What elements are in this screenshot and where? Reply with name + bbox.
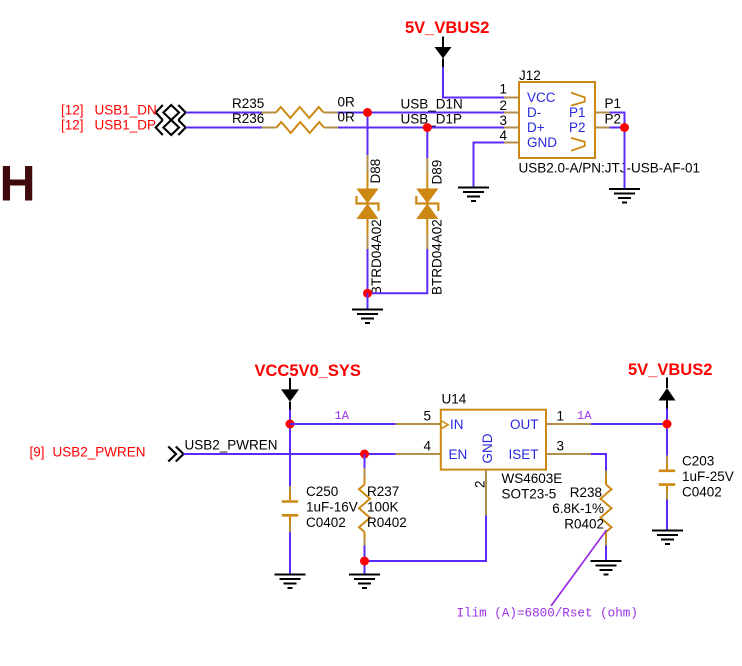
svg-text:VCC: VCC xyxy=(527,90,556,105)
off-page connector USB1_DN xyxy=(156,105,186,120)
svg-text:D-: D- xyxy=(527,105,541,120)
wire OUT (pin1) xyxy=(546,423,591,425)
shell crimp symbol bottom xyxy=(571,138,585,151)
junction P2 xyxy=(620,123,629,132)
pin P1 stub xyxy=(595,112,610,114)
ground (D88/D89) xyxy=(352,310,383,324)
svg-text:1: 1 xyxy=(499,82,507,97)
ground (C203) xyxy=(652,531,683,545)
capacitor C203 xyxy=(659,454,734,500)
svg-text:USB_D1P: USB_D1P xyxy=(401,112,463,127)
svg-text:USB1_DP: USB1_DP xyxy=(95,118,157,133)
wire C250 to ground xyxy=(289,532,291,574)
wire EN (pin4) xyxy=(184,453,396,455)
pin name GND (rotated) xyxy=(480,433,495,463)
svg-text:P1: P1 xyxy=(569,105,586,120)
sheet-entry label [9] USB2_PWREN xyxy=(30,445,146,460)
svg-text:R235: R235 xyxy=(232,96,264,111)
svg-text:USB_D1N: USB_D1N xyxy=(401,97,463,112)
svg-text:D88: D88 xyxy=(368,159,383,184)
resistor R235 xyxy=(232,95,355,119)
pin 5 stub xyxy=(396,423,441,425)
svg-text:1uF-25V: 1uF-25V xyxy=(682,469,734,484)
svg-text:R238: R238 xyxy=(570,485,602,500)
svg-text:IN: IN xyxy=(450,417,464,432)
pin 1 stub xyxy=(504,97,519,99)
svg-text:Ilim (A)=6800/Rset (ohm): Ilim (A)=6800/Rset (ohm) xyxy=(457,607,638,621)
wire R235 to J12 pin2 (USB_D1N) xyxy=(338,112,505,114)
wire USB1_DN to R235 xyxy=(186,112,262,114)
svg-text:BTRD04A02: BTRD04A02 xyxy=(369,219,384,295)
junction VCC5V0/IN xyxy=(286,420,295,429)
svg-text:SOT23-5: SOT23-5 xyxy=(502,487,557,502)
svg-text:USB2_PWREN: USB2_PWREN xyxy=(53,445,146,460)
sheet-entry label [12] USB1_DN xyxy=(61,103,157,118)
off-page connector USB1_DP xyxy=(156,120,186,135)
wire USB_D1P to D89 xyxy=(426,128,428,159)
svg-text:2: 2 xyxy=(499,98,507,113)
resistor R238 xyxy=(552,471,611,546)
svg-text:H: H xyxy=(0,156,36,212)
wire VCC5V0_SYS down to C250 xyxy=(289,410,291,487)
wire ISET (pin3) to R238 xyxy=(546,453,591,455)
pin 4 stub xyxy=(504,142,519,144)
wire USB_D1N to D88 xyxy=(367,113,369,156)
junction EN/R237 xyxy=(360,450,369,459)
svg-text:C0402: C0402 xyxy=(682,485,722,500)
pin 3 stub xyxy=(504,127,519,129)
svg-text:ISET: ISET xyxy=(508,447,538,462)
shell crimp symbol top xyxy=(571,93,585,106)
power port 5V_VBUS2 (bottom) xyxy=(628,361,712,409)
wire 5V_VBUS2 to OUT/C203 xyxy=(666,409,668,456)
resistor R237 xyxy=(359,454,407,546)
wire IN (pin5) xyxy=(290,423,396,425)
svg-text:0R: 0R xyxy=(338,110,356,125)
input arrow IN xyxy=(442,421,448,428)
svg-text:C203: C203 xyxy=(682,454,714,469)
svg-text:C250: C250 xyxy=(306,484,338,499)
off-page connector USB2_PWREN xyxy=(168,447,183,462)
wire R238 to ground xyxy=(605,546,607,561)
wire P1/P2 to ground xyxy=(610,113,625,189)
svg-text:D+: D+ xyxy=(527,120,545,135)
svg-text:[12]: [12] xyxy=(61,118,84,133)
svg-text:P2: P2 xyxy=(569,120,586,135)
wire R236 to J12 pin3 (USB_D1P) xyxy=(338,127,504,129)
svg-text:[12]: [12] xyxy=(61,103,84,118)
wire USB1_DP to R236 xyxy=(186,127,262,129)
IC U14 xyxy=(423,392,564,502)
junction ground rail xyxy=(363,289,372,298)
svg-text:4: 4 xyxy=(423,439,431,454)
sheet-entry label [12] USB1_DP xyxy=(61,118,156,133)
svg-text:3: 3 xyxy=(557,439,565,454)
note pointer line xyxy=(551,530,607,606)
connector J12 xyxy=(499,68,700,176)
junction D89 xyxy=(423,123,432,132)
svg-text:R0402: R0402 xyxy=(367,515,407,530)
svg-text:J12: J12 xyxy=(519,68,541,83)
pin 2 GND stub xyxy=(485,470,487,516)
ground (C250) xyxy=(275,575,306,589)
ground (R237) xyxy=(349,575,380,589)
wire C203 to ground xyxy=(666,500,668,531)
svg-text:5: 5 xyxy=(423,409,431,424)
svg-text:D89: D89 xyxy=(430,160,445,185)
pin 2 stub xyxy=(504,112,519,114)
pin P2 stub xyxy=(595,127,610,129)
svg-text:USB2_PWREN: USB2_PWREN xyxy=(185,438,278,453)
junction D88 xyxy=(363,108,372,117)
svg-text:R236: R236 xyxy=(232,111,264,126)
ground (J12 pin4) xyxy=(458,188,489,202)
wire D89 to ground rail xyxy=(368,249,428,293)
svg-text:EN: EN xyxy=(449,447,468,462)
svg-text:GND: GND xyxy=(480,433,495,463)
svg-text:WS4603E: WS4603E xyxy=(502,471,563,486)
TVS diode D89 xyxy=(416,158,444,295)
pin 2 number (rotated) xyxy=(473,480,488,488)
svg-text:5V_VBUS2: 5V_VBUS2 xyxy=(628,361,712,379)
svg-text:[9]: [9] xyxy=(30,445,45,460)
ground (R238) xyxy=(591,561,622,575)
power port 5V_VBUS2 (top) xyxy=(405,19,489,67)
svg-text:1uF-16V: 1uF-16V xyxy=(306,500,358,515)
svg-text:U14: U14 xyxy=(442,392,467,407)
wire GND pin to rail xyxy=(365,516,487,562)
resistor R236 xyxy=(232,110,355,134)
svg-text:VCC5V0_SYS: VCC5V0_SYS xyxy=(255,362,361,380)
svg-text:5V_VBUS2: 5V_VBUS2 xyxy=(405,19,489,37)
wire D88 to ground rail xyxy=(367,249,369,293)
svg-text:USB2.0-A/PN:JTJ-USB-AF-01: USB2.0-A/PN:JTJ-USB-AF-01 xyxy=(519,161,701,176)
svg-text:1A: 1A xyxy=(577,409,592,423)
TVS diode D88 xyxy=(356,155,383,295)
svg-text:P1: P1 xyxy=(605,96,622,111)
svg-text:6.8K-1%: 6.8K-1% xyxy=(552,501,604,516)
svg-text:4: 4 xyxy=(499,128,507,143)
svg-text:100K: 100K xyxy=(367,500,399,515)
svg-text:R237: R237 xyxy=(367,484,399,499)
svg-text:USB1_DN: USB1_DN xyxy=(95,103,157,118)
svg-text:GND: GND xyxy=(527,135,557,150)
junction OUT/5V_VBUS2 xyxy=(663,420,672,429)
wire 5V_VBUS2 to J12 pin1 xyxy=(443,67,504,98)
junction R237/GND rail xyxy=(360,557,369,566)
svg-text:P2: P2 xyxy=(605,112,622,127)
power port VCC5V0_SYS xyxy=(255,362,361,410)
wire J12 pin4 to ground xyxy=(474,143,505,187)
svg-text:3: 3 xyxy=(499,113,507,128)
svg-text:1: 1 xyxy=(557,409,565,424)
pin 4 stub xyxy=(396,453,441,455)
capacitor C250 xyxy=(282,484,358,532)
wire rail to ground xyxy=(367,293,369,308)
svg-text:1A: 1A xyxy=(335,409,350,423)
wire R237 to ground xyxy=(364,546,366,575)
svg-text:OUT: OUT xyxy=(510,417,539,432)
svg-text:R0402: R0402 xyxy=(564,517,604,532)
svg-text:0R: 0R xyxy=(338,95,356,110)
ground (P1/P2) xyxy=(609,189,640,203)
svg-text:BTRD04A02: BTRD04A02 xyxy=(430,219,445,295)
svg-text:C0402: C0402 xyxy=(306,515,346,530)
